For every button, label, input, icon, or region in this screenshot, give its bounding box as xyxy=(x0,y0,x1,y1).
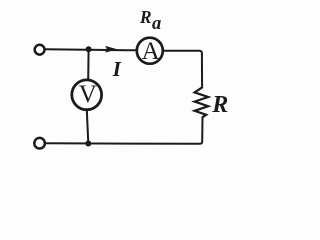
svg-text:R: R xyxy=(211,92,228,118)
svg-text:I: I xyxy=(112,57,122,81)
svg-text:a: a xyxy=(152,14,161,34)
svg-text:R: R xyxy=(139,7,152,27)
svg-text:A: A xyxy=(142,38,160,65)
svg-text:V: V xyxy=(79,81,97,108)
